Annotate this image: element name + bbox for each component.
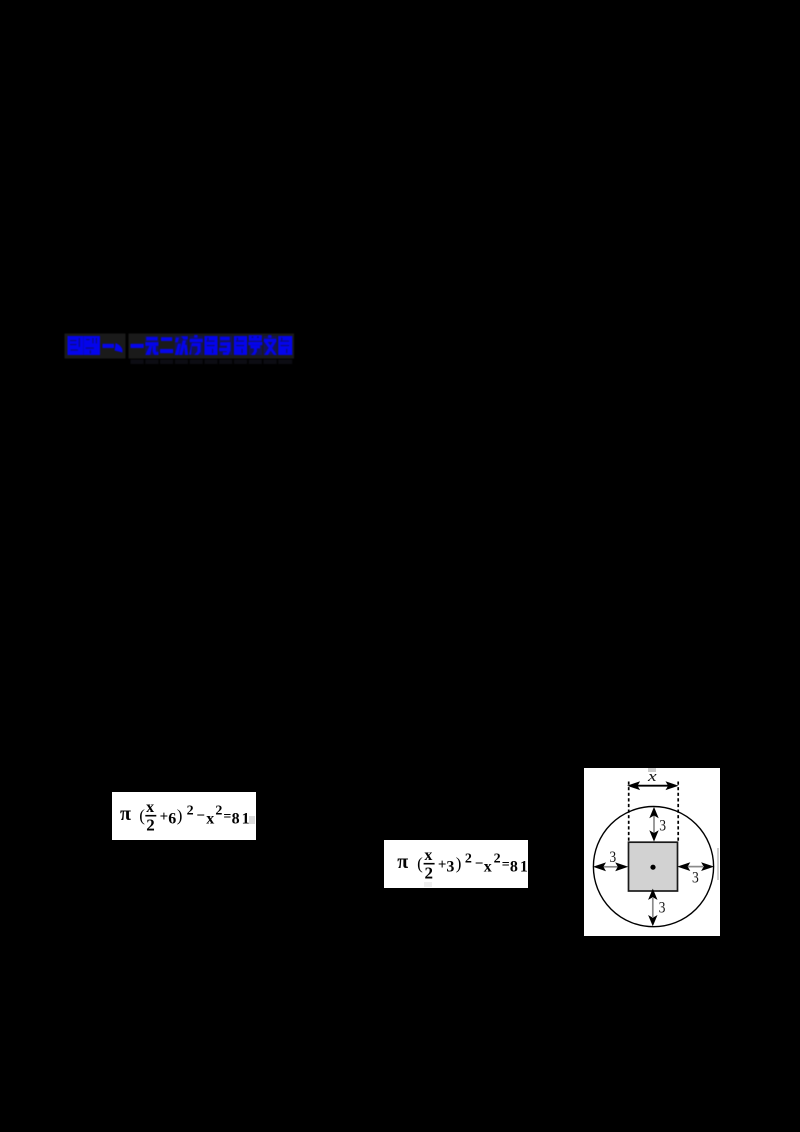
diagram white box bbox=[584, 768, 720, 936]
svg-text:3: 3 bbox=[659, 900, 666, 917]
heading char 方 bbox=[194, 335, 197, 338]
right 3 arrow bbox=[688, 866, 703, 868]
formula2 gray handle bbox=[424, 882, 432, 887]
bottom 3 arrow bbox=[652, 898, 654, 917]
svg-text:π: π bbox=[120, 803, 131, 825]
svg-text:2: 2 bbox=[425, 864, 434, 883]
svg-text:x: x bbox=[206, 811, 214, 828]
diagram top gray handle bbox=[648, 768, 656, 772]
svg-text:+: + bbox=[438, 857, 447, 873]
heading char (dense CJK glyph) bbox=[278, 336, 292, 355]
x dimension arrow bbox=[636, 785, 670, 787]
heading char 题 bbox=[68, 336, 84, 355]
svg-text:(: ( bbox=[417, 854, 423, 873]
heading char 元 bbox=[146, 337, 157, 340]
heading char 与 bbox=[220, 337, 230, 340]
heading char (dense CJK glyph) bbox=[234, 336, 247, 355]
heading: blue bold CJK title drawn as SVG shapes bbox=[60, 330, 305, 374]
formula 2 white box bbox=[384, 840, 528, 888]
circle bbox=[593, 807, 713, 927]
heading char 型 bbox=[84, 336, 100, 355]
heading char (dense CJK glyph) bbox=[204, 336, 217, 355]
svg-text:2: 2 bbox=[146, 816, 155, 835]
svg-text:x: x bbox=[484, 859, 492, 876]
svg-text:−: − bbox=[196, 808, 205, 824]
svg-text:8: 8 bbox=[232, 811, 240, 828]
dashed guide left bbox=[628, 782, 630, 843]
svg-text:8: 8 bbox=[510, 859, 518, 876]
heading char 二 bbox=[161, 337, 172, 341]
heading char 、 bbox=[115, 343, 123, 353]
heading char 一 bbox=[131, 344, 144, 348]
heading char 次 bbox=[175, 338, 179, 343]
center dot bbox=[650, 865, 655, 870]
svg-text:): ) bbox=[177, 806, 183, 825]
svg-text:x: x bbox=[146, 799, 154, 816]
svg-text:3: 3 bbox=[692, 870, 699, 887]
svg-text:): ) bbox=[456, 854, 462, 873]
diagram right gray handle bbox=[717, 848, 719, 880]
svg-text:(: ( bbox=[139, 806, 145, 825]
svg-text:2: 2 bbox=[187, 804, 194, 819]
dashed guide right bbox=[677, 782, 679, 843]
svg-text:=: = bbox=[223, 810, 231, 825]
heading char 一 bbox=[103, 344, 115, 348]
svg-text:2: 2 bbox=[465, 852, 472, 867]
svg-text:6: 6 bbox=[168, 811, 176, 828]
heading char 学 bbox=[249, 335, 262, 341]
formula1 gray handle bbox=[249, 816, 255, 824]
svg-text:2: 2 bbox=[494, 852, 501, 867]
svg-text:3: 3 bbox=[446, 859, 454, 876]
svg-text:3: 3 bbox=[609, 849, 616, 866]
heading char 文 bbox=[268, 335, 271, 338]
svg-text:2: 2 bbox=[215, 804, 222, 819]
formula 1 white box bbox=[112, 792, 256, 840]
svg-text:1: 1 bbox=[520, 859, 528, 876]
svg-text:−: − bbox=[475, 856, 484, 872]
svg-text:=: = bbox=[502, 858, 510, 873]
svg-text:x: x bbox=[424, 847, 432, 864]
svg-text:+: + bbox=[160, 809, 169, 825]
svg-text:π: π bbox=[397, 851, 408, 873]
svg-text:3: 3 bbox=[659, 818, 666, 835]
left 3 arrow bbox=[603, 866, 618, 868]
top 3 arrow bbox=[653, 815, 655, 834]
gray square bbox=[629, 842, 678, 891]
